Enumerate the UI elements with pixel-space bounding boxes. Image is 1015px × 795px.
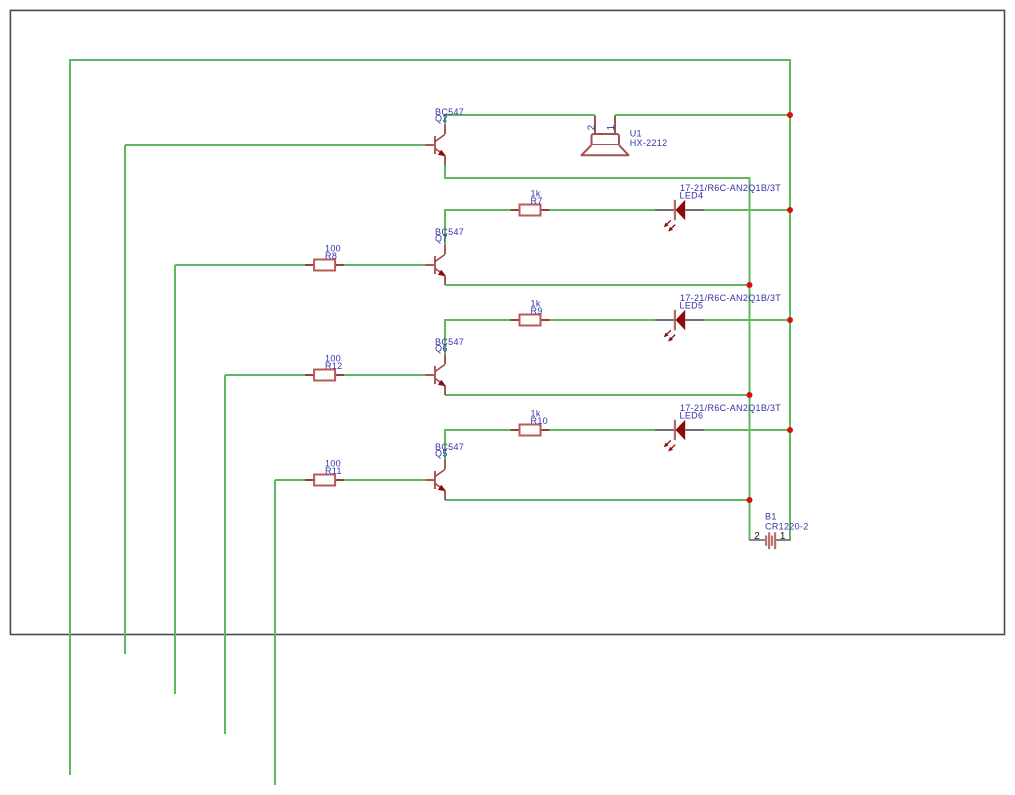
svg-text:R12: R12 (325, 361, 342, 371)
frame border (10, 10, 1004, 634)
battery B1 plate tall 1 (768, 532, 770, 549)
wire Q2 collector to speaker pin2 (444, 114, 595, 116)
transistor Q2 (426, 125, 447, 165)
wire Q5 emitter horizontal (445, 499, 750, 501)
wire to R11 left (275, 479, 306, 481)
svg-text:R10: R10 (531, 416, 548, 426)
junction dot bus row1 (787, 112, 793, 118)
svg-text:B1: B1 (765, 511, 777, 521)
svg-text:R8: R8 (325, 251, 337, 261)
wire V+ top horizontal (69, 59, 790, 61)
resistor R10 1k (511, 425, 550, 436)
wire row2 to R7 (444, 209, 511, 211)
wire R11 to Q5 base (344, 479, 426, 481)
junction dot bus row2 (787, 207, 793, 213)
speaker U1 pin 1 lead (614, 116, 616, 135)
svg-text:LED6: LED6 (680, 411, 704, 421)
wire R12 to Q6 base (344, 374, 426, 376)
svg-text:R9: R9 (531, 306, 543, 316)
resistor R8 100 (305, 260, 344, 271)
wire Q7 collector vertical (444, 209, 446, 245)
wire emitter bus vertical (749, 177, 751, 540)
wire base net Q2 horizontal (125, 144, 426, 146)
svg-text:R7: R7 (531, 196, 543, 206)
svg-text:CR1220-2: CR1220-2 (765, 522, 809, 532)
wire LED5 to bus (704, 319, 790, 321)
wire R10 to LED6 (550, 429, 656, 431)
wire to R12 left (225, 374, 306, 376)
junction dot emitter row2 (747, 282, 753, 288)
junction dot bus row3 (787, 317, 793, 323)
junction dot emitter row3 (747, 392, 753, 398)
svg-text:HX-2212: HX-2212 (630, 138, 668, 148)
speaker U1 body (592, 134, 620, 145)
svg-text:U1: U1 (630, 129, 642, 139)
svg-text:2: 2 (754, 531, 760, 542)
resistor R11 100 (305, 475, 344, 486)
resistor R7 1k (511, 205, 550, 216)
battery B1 plate short 1 (765, 536, 767, 546)
wire LED4 to bus (704, 209, 790, 211)
wire right bus vertical (789, 59, 791, 540)
svg-text:Q7: Q7 (435, 234, 448, 244)
wire base net R8 vertical (174, 265, 176, 694)
battery B1 right lead (776, 539, 791, 541)
wire base net R12 vertical (224, 375, 226, 734)
svg-text:LED4: LED4 (680, 191, 704, 201)
resistor R12 100 (305, 370, 344, 381)
wire Q5 collector vertical (444, 429, 446, 460)
speaker U1 pin 2 lead (594, 116, 596, 135)
transistor Q6 (426, 355, 447, 395)
wire R7 to LED4 (550, 209, 656, 211)
wire Q6 emitter horizontal (445, 394, 750, 396)
svg-text:2: 2 (586, 124, 597, 130)
wire row4 to R10 (444, 429, 511, 431)
LED5 (655, 310, 704, 343)
junction dot emitter row4 (747, 497, 753, 503)
svg-text:Q6: Q6 (435, 344, 448, 354)
LED6 (655, 420, 704, 453)
wire Q2 emitter horizontal (444, 177, 750, 179)
wire base net Q2 vertical (124, 145, 126, 654)
wire Q6 collector vertical (444, 319, 446, 355)
wire row3 to R9 (444, 319, 511, 321)
transistor Q5 (426, 460, 447, 500)
wire LED6 to bus (704, 429, 790, 431)
wire Q2 emitter stub (444, 165, 446, 178)
wire R9 to LED5 (550, 319, 656, 321)
wire base net R11 vertical (274, 480, 276, 785)
wire Q2 collector stub (444, 114, 446, 125)
speaker U1 cone (582, 145, 629, 155)
junction dot bus row4 (787, 427, 793, 433)
svg-text:1: 1 (606, 124, 617, 130)
battery B1 plate tall 2 (774, 532, 776, 549)
battery B1 plate short 2 (771, 536, 773, 546)
svg-text:LED5: LED5 (680, 301, 704, 311)
resistor R9 1k (511, 315, 550, 326)
LED4 (655, 200, 704, 233)
transistor Q7 (426, 245, 447, 285)
wire Q7 emitter horizontal (445, 284, 750, 286)
wire V+ left vertical (69, 60, 71, 775)
svg-text:R11: R11 (325, 466, 342, 476)
wire speaker pin1 to bus (615, 114, 790, 116)
wire R8 to Q7 base (344, 264, 426, 266)
svg-text:Q2: Q2 (435, 114, 448, 124)
battery B1 left lead (749, 539, 765, 541)
svg-text:Q5: Q5 (435, 449, 448, 459)
svg-text:1: 1 (780, 531, 786, 542)
wire to R8 left (175, 264, 306, 266)
